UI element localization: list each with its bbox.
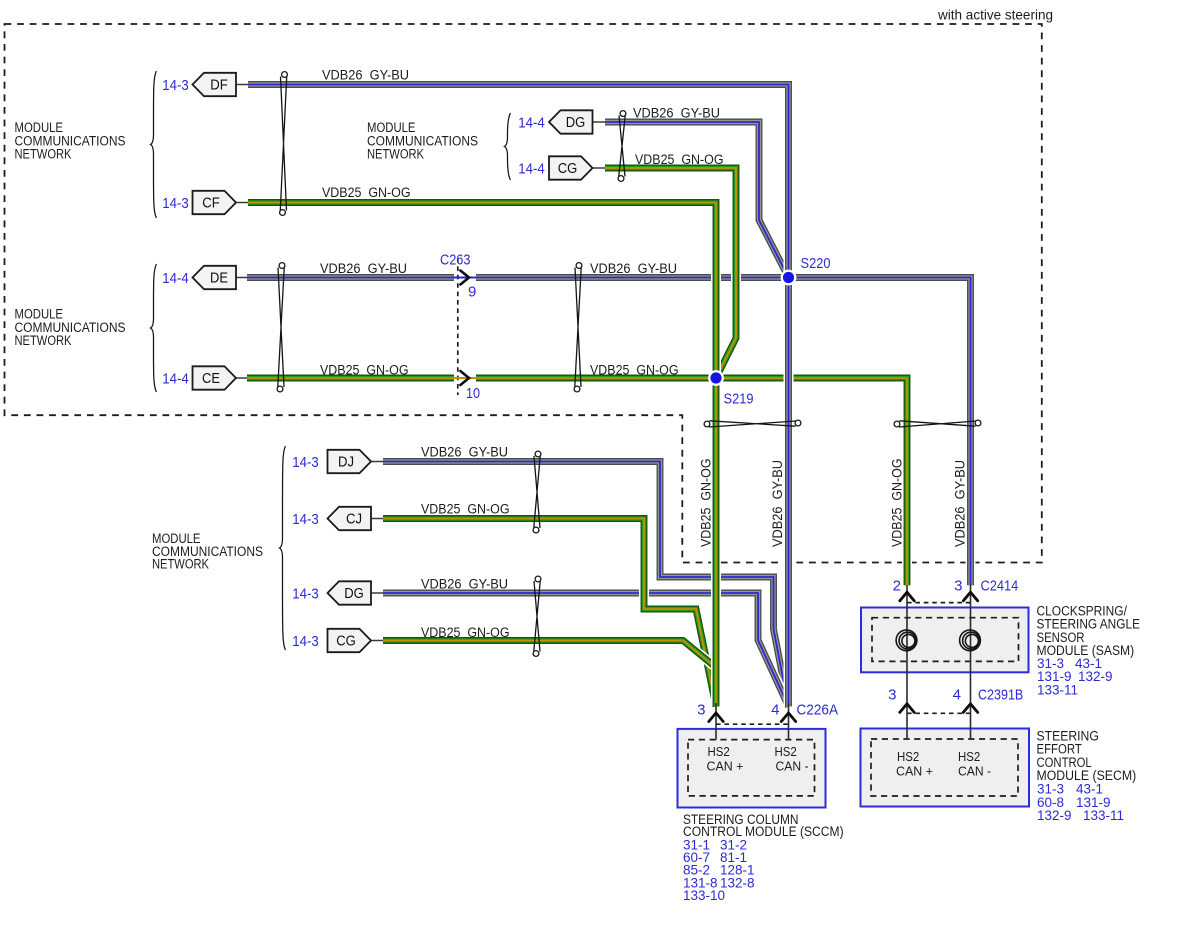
connector C2391B dashed bracket	[907, 712, 971, 714]
twisted pair DG/CG 14-4	[618, 111, 626, 182]
brace for DJ/CJ/DG/CG group	[280, 446, 286, 650]
svg-text:14-4: 14-4	[518, 161, 545, 178]
text: MODULE COMMUNICATIONS NETWORK (lower left)	[152, 531, 263, 571]
svg-text:VDB26 GY-BU: VDB26 GY-BU	[320, 261, 407, 276]
brace for DG/CG 14-4 group	[505, 113, 511, 180]
svg-text:133-10: 133-10	[683, 888, 725, 903]
svg-text:VDB26 GY-BU: VDB26 GY-BU	[421, 445, 508, 460]
wire VDB25 GN-OG from CJ to C226A pin 3	[383, 519, 716, 707]
svg-text:2: 2	[893, 578, 901, 595]
svg-text:C226A: C226A	[797, 701, 839, 718]
lead line DG 14-4	[593, 121, 606, 123]
lead line CE	[236, 377, 248, 379]
svg-text:NETWORK: NETWORK	[367, 147, 424, 162]
connector CG 14-3	[328, 629, 372, 652]
svg-text:S220: S220	[801, 255, 831, 272]
module SECM box	[861, 729, 1030, 807]
connector DE	[193, 266, 237, 289]
C2414 pin 3 arrow	[963, 592, 977, 601]
svg-text:VDB25 GN-OG: VDB25 GN-OG	[322, 185, 411, 200]
svg-text:DG: DG	[344, 585, 364, 602]
twisted pair DJ/CJ	[533, 451, 541, 533]
svg-text:3: 3	[697, 701, 705, 718]
connector C263 pin 10 pass-through arrow	[452, 377, 477, 379]
svg-text:VDB25 GN-OG: VDB25 GN-OG	[590, 362, 679, 377]
svg-text:NETWORK: NETWORK	[152, 556, 209, 571]
connector DG 14-4	[549, 110, 593, 133]
text: STEERING EFFORT CONTROL MODULE (SECM) with page refs	[1037, 728, 1137, 783]
svg-text:14-3: 14-3	[162, 77, 189, 94]
C226A pin 4 arrow	[781, 713, 795, 722]
svg-text:VDB26 GY-BU: VDB26 GY-BU	[953, 460, 968, 547]
connector C2414 dashed bracket	[907, 602, 971, 604]
dashed harness option border (with active steering region)	[5, 24, 1042, 563]
svg-text:4: 4	[771, 701, 779, 718]
svg-text:HS2: HS2	[897, 750, 919, 764]
svg-text:CG: CG	[558, 160, 578, 177]
svg-text:14-3: 14-3	[292, 454, 319, 471]
lead line DE	[236, 277, 248, 279]
lead line CJ	[371, 518, 383, 520]
svg-text:C2414: C2414	[981, 578, 1019, 595]
twisted pair DE/CE left	[277, 263, 285, 392]
svg-text:VDB26 GY-BU: VDB26 GY-BU	[590, 261, 677, 276]
lead line DF	[236, 84, 248, 86]
pin wire C2414-2 through SASM coil to SECM pin 3	[906, 585, 908, 739]
svg-text:132-9: 132-9	[1078, 669, 1113, 684]
connector DG 14-3	[328, 581, 372, 604]
svg-text:VDB25 GN-OG: VDB25 GN-OG	[699, 459, 714, 548]
wire VDB25 GN-OG from CG 14-4 to splice S219	[605, 168, 736, 378]
brace for DF/CF group	[151, 71, 157, 218]
svg-text:10: 10	[466, 385, 480, 402]
svg-text:VDB26 GY-BU: VDB26 GY-BU	[770, 460, 785, 547]
svg-text:CG: CG	[336, 633, 356, 650]
svg-text:4: 4	[953, 686, 961, 703]
svg-text:CAN +: CAN +	[896, 764, 933, 778]
svg-text:VDB26 GY-BU: VDB26 GY-BU	[322, 68, 409, 83]
wire VDB25 GN-OG from CG 14-3 to C226A pin 3	[383, 641, 716, 707]
svg-text:14-3: 14-3	[292, 586, 319, 603]
svg-text:3: 3	[888, 686, 896, 703]
twisted pair DG/CG 14-3	[533, 576, 541, 656]
svg-text:132-8: 132-8	[720, 875, 755, 890]
wire VDB26 GY-BU from DG 14-3 to C226A pin 4	[383, 593, 789, 707]
svg-text:DG: DG	[566, 114, 586, 131]
svg-text:14-4: 14-4	[162, 371, 189, 388]
svg-text:14-3: 14-3	[162, 195, 189, 212]
svg-text:14-4: 14-4	[162, 270, 189, 287]
svg-text:VDB26 GY-BU: VDB26 GY-BU	[421, 577, 508, 592]
C226A pin 3 arrow	[709, 713, 723, 722]
SASM clockspring coil right	[960, 630, 981, 651]
wire VDB25 GN-OG from CF through S219 to C226A pin 3	[248, 203, 716, 707]
connector CG 14-4	[549, 156, 593, 179]
svg-text:NETWORK: NETWORK	[15, 333, 72, 348]
pin wire into SCCM pin 4	[788, 703, 790, 740]
connector C226A dashed bracket	[716, 723, 789, 725]
module SASM box	[861, 608, 1029, 673]
splice S220	[781, 270, 797, 286]
svg-text:133-11: 133-11	[1083, 808, 1124, 823]
svg-text:VDB25 GN-OG: VDB25 GN-OG	[320, 362, 409, 377]
svg-text:VDB25 GN-OG: VDB25 GN-OG	[421, 502, 510, 517]
twisted pair to SASM	[894, 420, 981, 427]
twisted pair DE/CE right	[574, 263, 582, 392]
svg-text:132-9: 132-9	[1037, 808, 1072, 823]
svg-text:S219: S219	[724, 391, 754, 408]
C2414 pin 2 arrow	[900, 592, 914, 601]
svg-text:NETWORK: NETWORK	[15, 147, 72, 162]
twisted pair DF/CF	[280, 72, 288, 216]
text: MODULE COMMUNICATIONS NETWORK (mid left)	[15, 307, 126, 349]
SASM clockspring coil left	[896, 630, 917, 651]
text: MODULE COMMUNICATIONS NETWORK (top left)	[15, 120, 126, 161]
connector CF	[193, 191, 237, 214]
svg-text:DF: DF	[210, 77, 228, 94]
svg-text:CAN -: CAN -	[958, 764, 991, 778]
svg-text:3: 3	[954, 578, 962, 595]
brace for DE/CE group	[151, 264, 157, 392]
connector C263 in-line dashed separator	[457, 258, 459, 395]
svg-text:CAN -: CAN -	[776, 760, 809, 774]
svg-text:with active steering: with active steering	[937, 8, 1053, 23]
svg-text:14-4: 14-4	[518, 115, 545, 132]
svg-text:DJ: DJ	[338, 454, 354, 471]
svg-text:9: 9	[468, 283, 476, 300]
C2391B pin 4 arrow	[963, 704, 977, 713]
svg-text:14-3: 14-3	[292, 633, 319, 650]
svg-text:VDB25 GN-OG: VDB25 GN-OG	[890, 459, 905, 548]
connector DJ	[328, 450, 372, 473]
text: CLOCKSPRING/STEERING ANGLE SENSOR MODULE (SASM) with page refs	[1037, 604, 1141, 659]
svg-text:HS2: HS2	[775, 745, 797, 759]
svg-text:C2391B: C2391B	[978, 686, 1023, 703]
connector CE	[193, 366, 237, 389]
svg-text:CJ: CJ	[346, 511, 362, 528]
wire VDB25 GN-OG from CE through C263 and S219 to C2414 pin 2	[247, 378, 907, 585]
module SCCM box	[678, 729, 826, 808]
connector C263 pin 9 pass-through arrow	[452, 277, 477, 279]
svg-text:HS2: HS2	[708, 745, 730, 759]
svg-text:CE: CE	[202, 370, 220, 387]
splice S219	[708, 370, 724, 386]
svg-text:14-3: 14-3	[292, 511, 319, 528]
connector DF	[193, 73, 237, 96]
wire VDB26 GY-BU from DE through C263 and S220 to C2414 pin 3	[247, 278, 971, 586]
lead line DG 14-3	[371, 592, 383, 594]
lead line CG 14-4	[593, 167, 606, 169]
twisted pair below S219/S220	[704, 420, 801, 427]
wire VDB26 GY-BU from DJ to C226A pin 4	[383, 462, 789, 707]
wire VDB26 GY-BU from DG 14-4 to splice S220	[605, 122, 789, 278]
svg-text:133-11: 133-11	[1037, 682, 1078, 697]
svg-text:CF: CF	[202, 195, 220, 212]
pin wire C2414-3 through SASM coil to SECM pin 4	[970, 585, 972, 739]
svg-text:VDB25 GN-OG: VDB25 GN-OG	[635, 152, 724, 167]
pin wire into SCCM pin 3	[715, 703, 717, 740]
svg-text:HS2: HS2	[958, 750, 980, 764]
connector CJ	[328, 507, 372, 530]
text: STEERING COLUMN CONTROL MODULE (SCCM) with page refs	[683, 812, 844, 839]
lead line CF	[236, 202, 248, 204]
svg-text:VDB25 GN-OG: VDB25 GN-OG	[421, 625, 510, 640]
C2391B pin 3 arrow	[900, 704, 914, 713]
svg-text:CAN +: CAN +	[707, 760, 744, 774]
svg-text:VDB26 GY-BU: VDB26 GY-BU	[633, 106, 720, 121]
text: MODULE COMMUNICATIONS NETWORK (center top)	[367, 120, 478, 161]
wire VDB26 GY-BU from DF through S220 to C226A pin 4	[248, 85, 789, 707]
svg-text:DE: DE	[210, 270, 228, 287]
svg-text:C263: C263	[440, 252, 471, 269]
lead line CG 14-3	[371, 640, 383, 642]
lead line DJ	[371, 461, 383, 463]
